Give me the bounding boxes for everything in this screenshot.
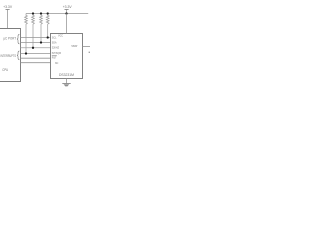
power +3.3V (right) [63, 4, 72, 14]
svg-text:+3.3V: +3.3V [63, 4, 72, 9]
brace 2 [17, 51, 19, 60]
svg-text:VCC: VCC [58, 33, 63, 37]
resistor R4 [46, 14, 49, 38]
svg-text:VBAT: VBAT [71, 44, 78, 48]
battery mark (clipped at edge) [89, 51, 90, 53]
svg-text:RST: RST [52, 56, 57, 60]
junction dot rail/vcc [65, 12, 67, 14]
vcc rail [26, 13, 88, 15]
power +3.3V (left) [3, 4, 12, 9]
junction dot INT/R1 [25, 52, 27, 54]
svg-text:DS3231M: DS3231M [59, 73, 74, 77]
wire VCC [66, 14, 68, 34]
resistor R1 [25, 14, 28, 54]
svg-text:µC PORT: µC PORT [4, 36, 17, 40]
svg-text:INT/SQW: INT/SQW [52, 51, 61, 55]
wire pin6 [21, 62, 51, 64]
resistor R3 [40, 14, 43, 43]
brace 1 [17, 34, 19, 44]
wire VBAT stub [83, 46, 91, 48]
wire GND stem [66, 79, 68, 84]
svg-text:SCL: SCL [52, 35, 57, 39]
ground symbol [62, 84, 70, 87]
wire SCL [21, 37, 51, 39]
IC U1 DS3231M box [51, 34, 83, 79]
wire SDA [21, 42, 51, 44]
junction dot SDA/R3 [40, 41, 42, 43]
wire RST [21, 57, 51, 59]
svg-text:CPU: CPU [2, 68, 8, 72]
svg-text:+3.3V: +3.3V [3, 4, 12, 9]
wire: +3.3V to CPU box [7, 9, 9, 28]
CPU box [0, 29, 21, 82]
wire 32KHZ [21, 47, 51, 49]
junction dot 32KHZ/R2 [32, 47, 34, 49]
svg-text:INTERRUPTS: INTERRUPTS [1, 54, 17, 58]
svg-text:SDA: SDA [52, 40, 57, 44]
svg-text:32KHZ: 32KHZ [52, 46, 59, 50]
svg-text:NC: NC [55, 61, 59, 65]
wire INT/SQW [21, 53, 51, 55]
junction dots on rail [32, 12, 34, 14]
resistor R2 [32, 14, 35, 48]
junction dot SCL/R4 [47, 36, 49, 38]
